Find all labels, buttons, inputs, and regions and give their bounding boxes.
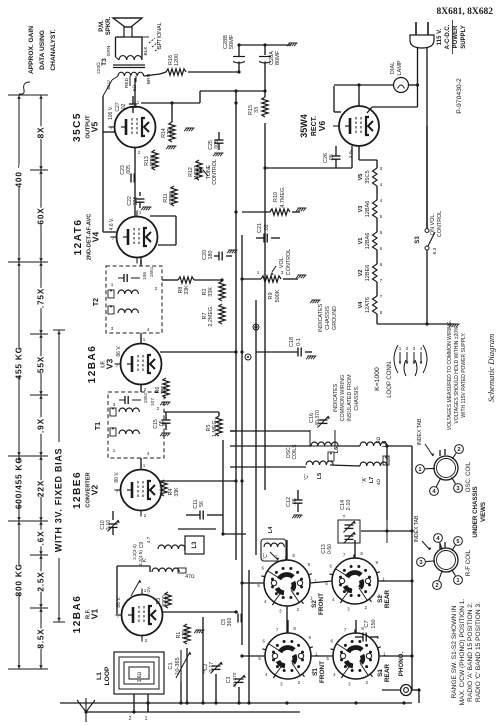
svg-text:7: 7 <box>116 489 119 494</box>
svg-text:1.6Ω: 1.6Ω <box>137 671 143 682</box>
svg-text:8200: 8200 <box>162 595 168 607</box>
svg-text:1200: 1200 <box>174 54 180 66</box>
svg-text:33K: 33K <box>174 487 180 497</box>
svg-text:2: 2 <box>406 346 409 351</box>
svg-text:CHASSIS: CHASSIS <box>325 306 331 330</box>
svg-text:T: T <box>343 514 346 519</box>
svg-text:L3: L3 <box>192 541 198 549</box>
svg-text:V2: V2 <box>358 270 364 277</box>
svg-text:C9: C9 <box>139 542 145 549</box>
svg-text:V3: V3 <box>358 206 364 213</box>
svg-text:V5: V5 <box>358 174 364 181</box>
svg-text:3: 3 <box>281 270 284 275</box>
svg-text:OPTIONAL: OPTIONAL <box>157 22 163 49</box>
svg-text:2: 2 <box>138 150 141 155</box>
svg-text:6.3: 6.3 <box>432 247 438 254</box>
svg-text:LOOP: LOOP <box>104 666 111 685</box>
svg-text:1: 1 <box>139 210 142 215</box>
svg-text:Schematic Diagram: Schematic Diagram <box>486 334 496 403</box>
svg-text:K=1000: K=1000 <box>374 367 381 391</box>
svg-text:1: 1 <box>111 282 114 287</box>
svg-text:2.5X: 2.5X <box>36 571 46 591</box>
svg-text:22X: 22X <box>36 480 46 497</box>
svg-text:2: 2 <box>435 583 438 589</box>
svg-text:.005: .005 <box>214 140 220 150</box>
svg-text:MAX. C/CW (PHONO) POSITION 1.: MAX. C/CW (PHONO) POSITION 1. <box>459 599 466 706</box>
svg-text:107: 107 <box>150 398 156 406</box>
svg-text:-2V.: -2V. <box>146 586 151 594</box>
svg-text:60X: 60X <box>36 207 46 224</box>
svg-text:1: 1 <box>113 448 116 453</box>
svg-text:80 V.: 80 V. <box>114 471 120 482</box>
svg-text:V1: V1 <box>90 609 100 620</box>
svg-text:12AT6: 12AT6 <box>73 219 84 256</box>
svg-text:10-365: 10-365 <box>175 657 181 674</box>
svg-text:INSULATED FROM: INSULATED FROM <box>347 374 353 422</box>
svg-text:V6: V6 <box>317 121 327 132</box>
svg-text:APPROX. GAIN: APPROX. GAIN <box>28 26 35 74</box>
svg-text:7: 7 <box>112 236 115 241</box>
svg-text:.005: .005 <box>126 165 132 175</box>
svg-text:2-17: 2-17 <box>209 662 215 672</box>
svg-text:800 KC: 800 KC <box>14 564 24 597</box>
svg-text:V5: V5 <box>90 122 100 133</box>
svg-text:12BA6: 12BA6 <box>72 595 83 634</box>
svg-text:3: 3 <box>113 402 116 407</box>
svg-text:12BA6: 12BA6 <box>87 345 98 384</box>
svg-text:DIAL: DIAL <box>390 62 396 74</box>
svg-text:40-370: 40-370 <box>232 672 238 687</box>
svg-text:S1: S1 <box>377 669 384 677</box>
svg-text:V4: V4 <box>91 232 101 243</box>
svg-text:VOLTAGES MEASURED TO COMMON WI: VOLTAGES MEASURED TO COMMON WIRING. <box>447 320 453 430</box>
svg-text:4: 4 <box>147 451 150 456</box>
svg-text:35W4: 35W4 <box>299 114 309 138</box>
svg-text:.05: .05 <box>329 154 335 162</box>
svg-text:3: 3 <box>413 346 416 351</box>
svg-text:7: 7 <box>116 363 119 368</box>
svg-text:86 V.: 86 V. <box>116 345 122 356</box>
svg-text:'C': 'C' <box>263 553 269 559</box>
svg-text:R-F COIL: R-F COIL <box>465 549 472 576</box>
svg-text:330: 330 <box>133 197 139 206</box>
svg-text:120: 120 <box>167 129 173 138</box>
svg-text:L4: L4 <box>268 526 274 533</box>
svg-text:VIEWS: VIEWS <box>480 502 487 522</box>
svg-text:4Ω: 4Ω <box>376 478 381 485</box>
svg-text:P-970430-2: P-970430-2 <box>456 78 463 114</box>
svg-text:12AT6: 12AT6 <box>365 297 371 313</box>
svg-text:REAR: REAR <box>384 664 391 682</box>
svg-text:2: 2 <box>457 447 460 453</box>
svg-text:2: 2 <box>129 716 132 722</box>
svg-text:1: 1 <box>143 337 146 342</box>
svg-text:180: 180 <box>161 386 167 395</box>
svg-text:SPKR.: SPKR. <box>106 17 112 36</box>
svg-text:106: 106 <box>142 272 148 280</box>
svg-text:PHONO.: PHONO. <box>398 652 405 677</box>
svg-text:CHASSIS.: CHASSIS. <box>354 385 360 410</box>
svg-text:2: 2 <box>155 286 158 291</box>
svg-text:CONTROL: CONTROL <box>286 249 292 275</box>
svg-text:A-C-D.C.: A-C-D.C. <box>445 24 451 49</box>
svg-text:2: 2 <box>144 387 147 392</box>
svg-text:RANGE SW. S1-S2 SHOWN IN: RANGE SW. S1-S2 SHOWN IN <box>451 605 458 698</box>
svg-text:GROUND: GROUND <box>332 306 338 330</box>
svg-text:.9X: .9X <box>36 418 46 433</box>
svg-text:RADIO 'A' BAND 15 POSITION 2.: RADIO 'A' BAND 15 POSITION 2. <box>467 602 474 702</box>
svg-text:'A': 'A' <box>362 477 368 482</box>
svg-text:COMMON WIRING: COMMON WIRING <box>340 375 346 422</box>
svg-text:2.2(3-4): 2.2(3-4) <box>132 544 137 560</box>
svg-text:220Ω: 220Ω <box>96 62 102 74</box>
svg-text:1551: 1551 <box>149 266 155 277</box>
svg-text:4: 4 <box>147 327 150 332</box>
svg-text:.6X: .6X <box>36 531 46 546</box>
svg-text:8X: 8X <box>36 127 46 139</box>
svg-text:WITH 115V RATED POWER SUPPLY.: WITH 115V RATED POWER SUPPLY. <box>461 332 467 417</box>
svg-text:V1: V1 <box>358 238 364 245</box>
svg-text:12BA6: 12BA6 <box>365 233 371 250</box>
svg-text:220K: 220K <box>169 191 175 204</box>
svg-text:LOOP CONN.: LOOP CONN. <box>387 360 393 398</box>
svg-text:8X681, 8X682: 8X681, 8X682 <box>437 7 494 17</box>
svg-text:47Ω: 47Ω <box>185 574 195 580</box>
svg-text:S2: S2 <box>311 600 318 608</box>
svg-text:2: 2 <box>145 638 148 643</box>
svg-text:180: 180 <box>208 251 214 260</box>
svg-text:REAR: REAR <box>384 590 391 608</box>
svg-text:7: 7 <box>117 614 120 619</box>
svg-text:R9: R9 <box>268 292 274 299</box>
svg-text:RADIO 'C' BAND 15 POSITION 3.: RADIO 'C' BAND 15 POSITION 3. <box>475 602 482 702</box>
svg-text:106 V.: 106 V. <box>108 106 114 120</box>
svg-text:8.5X: 8.5X <box>36 628 46 648</box>
svg-text:V2: V2 <box>90 485 100 496</box>
svg-text:INDEX TAB: INDEX TAB <box>417 418 423 445</box>
svg-text:ON VOL.: ON VOL. <box>430 213 436 235</box>
svg-text:12BA6: 12BA6 <box>365 201 371 218</box>
svg-text:455 KC: 455 KC <box>14 347 24 380</box>
svg-text:1 MEG.: 1 MEG. <box>212 419 218 437</box>
svg-text:33K: 33K <box>208 287 214 297</box>
svg-text:2: 2 <box>157 406 160 411</box>
svg-text:12BE6: 12BE6 <box>72 471 83 509</box>
svg-text:V4: V4 <box>358 301 364 309</box>
svg-text:POWER: POWER <box>453 25 459 48</box>
svg-text:33: 33 <box>254 107 260 113</box>
svg-text:2.2MEG.: 2.2MEG. <box>208 305 214 326</box>
svg-text:VOLTAGES SHOULD HOLD WITHIN ±2: VOLTAGES SHOULD HOLD WITHIN ±20% <box>454 326 460 424</box>
svg-text:.02: .02 <box>121 103 127 110</box>
svg-text:33K: 33K <box>184 285 190 295</box>
svg-text:0-50: 0-50 <box>327 544 333 554</box>
svg-text:C1: C1 <box>168 662 174 669</box>
svg-text:400 ~: 400 ~ <box>14 163 24 188</box>
svg-text:80MF: 80MF <box>275 50 281 65</box>
svg-text:S3: S3 <box>415 236 421 244</box>
svg-text:LAMP: LAMP <box>397 60 403 76</box>
svg-text:360: 360 <box>227 618 233 627</box>
svg-text:T3: T3 <box>101 58 108 66</box>
svg-text:L7: L7 <box>369 477 375 484</box>
svg-text:55X: 55X <box>36 356 46 373</box>
svg-text:T2: T2 <box>93 298 100 306</box>
svg-text:C18: C18 <box>289 337 295 347</box>
svg-text:470K: 470K <box>150 154 156 167</box>
svg-text:.75X: .75X <box>36 288 46 308</box>
svg-text:C7: C7 <box>364 620 370 627</box>
svg-text:35C5: 35C5 <box>72 112 83 142</box>
svg-text:T: T <box>202 670 205 676</box>
svg-text:470: 470 <box>182 631 188 640</box>
svg-text:2: 2 <box>144 513 147 518</box>
svg-text:L6: L6 <box>334 447 340 454</box>
svg-text:V3: V3 <box>105 359 115 370</box>
svg-text:L5: L5 <box>317 473 323 480</box>
svg-text:7: 7 <box>110 126 113 131</box>
svg-text:C21: C21 <box>257 223 263 233</box>
svg-text:C3: C3 <box>226 677 232 684</box>
svg-text:3: 3 <box>111 326 114 331</box>
svg-text:INDEX TAB: INDEX TAB <box>414 515 420 542</box>
svg-text:4.7MEG.: 4.7MEG. <box>280 186 286 207</box>
svg-text:BLK: BLK <box>143 46 149 56</box>
svg-text:50MF: 50MF <box>229 34 235 49</box>
svg-text:R10: R10 <box>273 192 279 202</box>
svg-text:WITH 3V. FIXED BIAS: WITH 3V. FIXED BIAS <box>54 448 64 552</box>
svg-text:2-10: 2-10 <box>346 500 352 511</box>
svg-text:150: 150 <box>371 619 377 628</box>
svg-text:INDICATES: INDICATES <box>318 303 324 332</box>
svg-text:SUPPLY: SUPPLY <box>461 25 467 48</box>
svg-text:FRONT: FRONT <box>318 593 325 615</box>
svg-text:12BE6: 12BE6 <box>365 265 371 282</box>
svg-text:0-1: 0-1 <box>296 338 302 346</box>
svg-text:T1: T1 <box>95 422 102 430</box>
svg-text:1: 1 <box>399 346 402 351</box>
svg-text:35C5: 35C5 <box>365 170 371 183</box>
svg-text:DATA USING: DATA USING <box>39 30 46 70</box>
svg-text:VOL.: VOL. <box>279 256 285 268</box>
svg-text:2-10: 2-10 <box>106 520 112 530</box>
svg-text:UNDER CHASSIS: UNDER CHASSIS <box>472 486 479 537</box>
svg-text:1MEG.: 1MEG. <box>194 164 200 180</box>
svg-text:FRONT: FRONT <box>319 661 326 683</box>
svg-text:CHANALYST.: CHANALYST. <box>50 29 57 70</box>
svg-text:L1: L1 <box>96 672 103 680</box>
svg-text:1: 1 <box>145 716 148 722</box>
svg-text:4: 4 <box>420 346 423 351</box>
svg-text:600/455 KC: 600/455 KC <box>14 457 24 509</box>
svg-text:CONTROL: CONTROL <box>437 211 443 237</box>
svg-text:500K: 500K <box>275 289 281 302</box>
svg-text:.05: .05 <box>292 498 298 506</box>
svg-text:INDICATES: INDICATES <box>333 383 339 412</box>
svg-text:X 6ₓ: X 6ₓ <box>348 149 353 158</box>
svg-text:S2: S2 <box>377 595 384 603</box>
svg-text:1: 1 <box>137 100 140 105</box>
svg-text:56: 56 <box>199 501 205 507</box>
svg-text:S1: S1 <box>312 668 319 676</box>
svg-text:P.M.: P.M. <box>99 20 105 32</box>
svg-text:1: 1 <box>257 270 260 275</box>
svg-text:40-370: 40-370 <box>315 410 321 426</box>
svg-text:4.2(4-5): 4.2(4-5) <box>138 550 143 566</box>
svg-text:RED: RED <box>124 77 130 88</box>
svg-text:1551: 1551 <box>143 392 149 403</box>
svg-text:4.7: 4.7 <box>146 536 151 543</box>
svg-text:GRN: GRN <box>106 45 112 56</box>
svg-text:1: 1 <box>143 463 146 468</box>
svg-text:CONTROL: CONTROL <box>212 159 218 184</box>
svg-text:'C': 'C' <box>304 474 310 480</box>
svg-text:115 V.: 115 V. <box>437 28 443 45</box>
svg-text:4.6 V.: 4.6 V. <box>109 218 115 231</box>
